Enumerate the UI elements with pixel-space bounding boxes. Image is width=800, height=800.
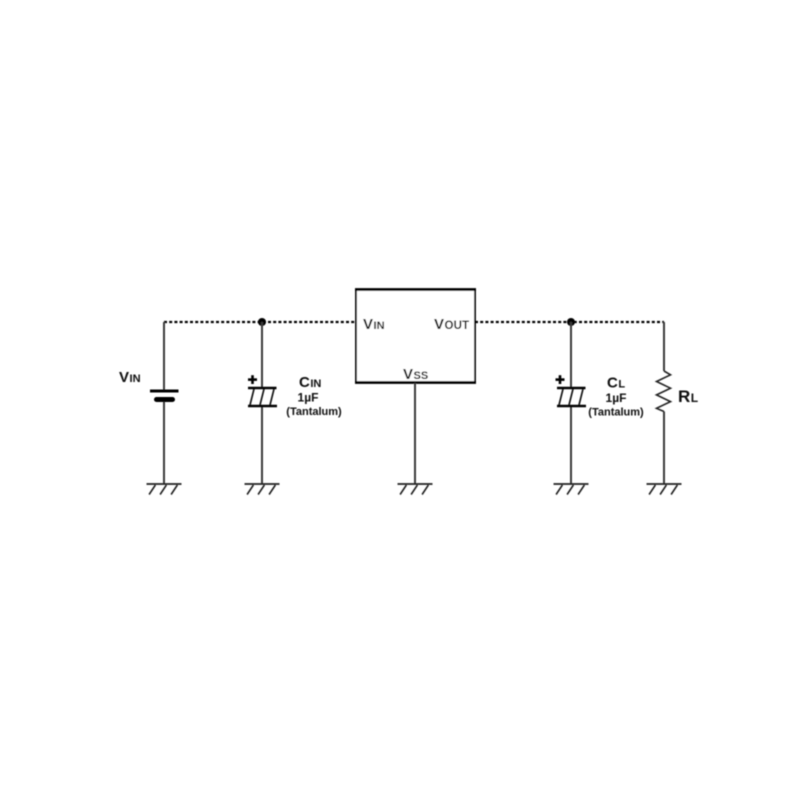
svg-text:CL: CL — [607, 375, 625, 392]
svg-text:1µF: 1µF — [298, 391, 319, 405]
svg-text:CIN: CIN — [299, 374, 321, 391]
svg-text:(Tantalum): (Tantalum) — [286, 406, 342, 418]
svg-text:(Tantalum): (Tantalum) — [588, 407, 644, 419]
svg-text:1µF: 1µF — [606, 391, 627, 405]
svg-text:VIN: VIN — [119, 369, 141, 386]
svg-text:RL: RL — [678, 387, 698, 406]
